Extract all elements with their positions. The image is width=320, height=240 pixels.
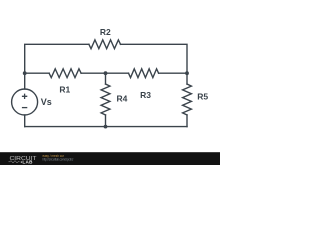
wire: R4 bottom to bottom rail (105, 115, 107, 127)
node D junction dot (R4 bottom) (104, 125, 108, 129)
wire: Vs bottom to bottom rail (24, 115, 26, 127)
node C junction dot (104, 71, 108, 75)
svg-text:▪LAB: ▪LAB (21, 159, 34, 164)
wire: R1 to node C (81, 72, 105, 74)
wire: node A to R1 (25, 72, 49, 74)
Vs plus sign (22, 94, 27, 99)
wire: node C to R4 top (105, 73, 107, 84)
resistor R3 (129, 69, 159, 78)
resistor R4 (101, 84, 110, 115)
svg-text:R5: R5 (197, 92, 208, 102)
wire: top rail right segment (R2 to node B) (121, 44, 188, 73)
resistor R5 (183, 84, 192, 115)
voltage source Vs (12, 89, 38, 115)
wire: R3 to node B (159, 72, 187, 74)
CircuitLab logo: zigzag (9, 161, 20, 163)
wire: node A to Vs top (24, 73, 26, 89)
node B junction dot (185, 71, 189, 75)
svg-text:Vs: Vs (41, 97, 52, 107)
wire: top rail left segment (node A to R2) (25, 44, 89, 73)
resistor R1 (49, 69, 81, 78)
wire: R5 bottom to bottom rail corner (186, 115, 188, 127)
node A junction dot (23, 71, 27, 75)
svg-text:R4: R4 (117, 93, 128, 103)
wire: node C to R3 (106, 72, 129, 74)
Vs minus sign (22, 107, 27, 109)
svg-text:R3: R3 (140, 90, 151, 100)
svg-text:http://circuitlab.com/c/pctrcr: http://circuitlab.com/c/pctrcr (43, 157, 75, 161)
svg-text:R1: R1 (59, 85, 70, 95)
svg-text:R2: R2 (100, 27, 111, 37)
wire: bottom rail (25, 126, 187, 128)
wire: node B to R5 top (186, 73, 188, 84)
resistor R2 (89, 40, 121, 49)
watermark bar (0, 152, 220, 165)
